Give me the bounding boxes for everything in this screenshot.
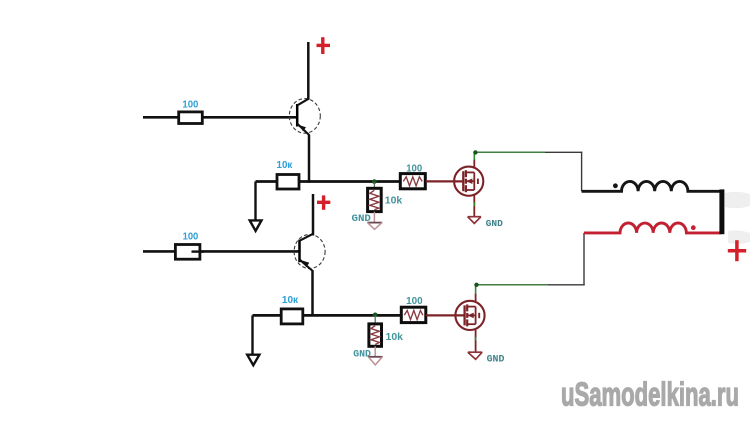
node junction (Q1 row / R6) — [372, 179, 377, 184]
mosfet M1 — [454, 167, 483, 196]
wire Q2 collector — [312, 194, 315, 236]
ground (M1 source) — [468, 217, 481, 224]
node drain M2 — [474, 283, 478, 287]
svg-text:GND: GND — [486, 218, 503, 229]
wire Q2 emitter row — [253, 314, 402, 317]
wire M2 drain — [475, 294, 477, 302]
ground (M2 source) — [468, 352, 482, 359]
node drain M1 — [473, 150, 477, 154]
svg-text:10к: 10к — [282, 295, 299, 306]
wire transformer upper left — [581, 152, 583, 192]
wire gate M1 (dark red) — [426, 180, 463, 182]
node polarity dot L1 — [613, 183, 618, 188]
transistor Q2 — [294, 234, 325, 271]
wire Q1 emitter row — [256, 180, 401, 183]
wire Q2 input — [143, 250, 300, 253]
wire to ground Q1 — [254, 182, 256, 221]
wire stub (node to R8) — [374, 316, 376, 325]
wire (visible through R3 box) — [192, 250, 205, 252]
resistor R6 10k pulldown (M1) — [368, 188, 382, 211]
wire Q2 emitter — [311, 270, 314, 316]
wire M1 drain — [473, 160, 475, 168]
ground (Q1 row) — [250, 220, 262, 231]
mosfet M2 — [455, 301, 484, 330]
ground (Q2 row) — [247, 355, 259, 366]
wire M1 drain horizontal (green) — [474, 151, 545, 153]
decorative faint blobs — [725, 192, 750, 244]
ground (R6 pulldown) — [367, 212, 382, 230]
wire transformer lower left — [583, 233, 585, 286]
inductor L1 (primary top, black) — [582, 181, 724, 191]
wire M1 source — [473, 195, 475, 216]
resistor R1 100 (Q1 base) — [179, 112, 203, 124]
svg-text:100: 100 — [182, 100, 198, 111]
svg-text:GND: GND — [487, 355, 505, 366]
svg-text:100: 100 — [406, 296, 423, 307]
wire Q1 input — [143, 116, 297, 119]
wire M2 source — [475, 330, 477, 352]
resistor R2 10k (Q1) — [277, 175, 299, 190]
node center tap bar — [719, 189, 724, 234]
svg-text:10k: 10k — [386, 331, 404, 343]
resistor R4 10k (Q2) — [281, 309, 303, 324]
svg-text:uSamodelkina.ru: uSamodelkina.ru — [561, 375, 739, 412]
power + (Q2 supply) — [317, 195, 330, 209]
svg-text:10k: 10k — [385, 195, 403, 207]
svg-text:100: 100 — [183, 231, 199, 242]
wire to ground Q2 — [251, 315, 253, 355]
power + (Q1 supply) — [317, 37, 331, 54]
power + (output, red) — [728, 240, 746, 261]
node polarity dot L2 — [691, 225, 696, 230]
node junction (Q2 row / R8) — [373, 313, 378, 318]
transistor Q1 — [289, 98, 320, 135]
svg-text:GND: GND — [353, 349, 371, 360]
inductor L2 (primary bottom, red) — [584, 223, 722, 233]
resistor R8 10k pulldown (M2) — [369, 324, 382, 346]
resistor R7 100 (M2 gate) — [401, 307, 426, 322]
ground (R8 pulldown) — [368, 346, 383, 365]
svg-text:100: 100 — [406, 164, 423, 175]
wire Q1 emitter — [308, 135, 311, 183]
resistor R3 100 (Q2 base) — [175, 245, 200, 260]
wire M2 drain horizontal (green) — [476, 284, 548, 286]
svg-text:10к: 10к — [277, 160, 294, 171]
wire stub (node to R6) — [373, 183, 375, 190]
resistor R5 100 (M1 gate) — [400, 174, 425, 189]
wire Q1 collector — [307, 42, 310, 100]
wire gate M2 (dark red) — [426, 314, 464, 316]
